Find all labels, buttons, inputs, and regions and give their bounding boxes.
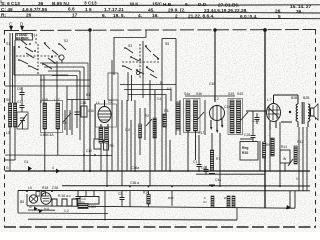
svg-text:S6: S6 — [6, 98, 10, 102]
svg-text:L.2: L.2 — [214, 97, 219, 101]
svg-text:S4b: S4b — [196, 92, 202, 96]
svg-text:S: 6 C13: S: 6 C13 — [1, 1, 20, 7]
svg-text:1.7.17.21: 1.7.17.21 — [104, 7, 124, 13]
svg-text:19. 5.: 19. 5. — [113, 13, 125, 19]
svg-text:C36a: C36a — [131, 166, 139, 170]
svg-text:26: 26 — [26, 12, 32, 18]
svg-text:3 C13: 3 C13 — [84, 1, 97, 7]
svg-text:C17: C17 — [198, 131, 204, 135]
svg-text:L5: L5 — [28, 186, 32, 190]
svg-text:-6.5: -6.5 — [166, 87, 172, 91]
svg-text:C4B: C4B — [80, 101, 86, 105]
svg-text:C10: C10 — [86, 149, 92, 153]
svg-text:R9: R9 — [266, 143, 270, 147]
svg-text:9.: 9. — [185, 2, 189, 8]
svg-text:R11: R11 — [281, 145, 287, 149]
svg-text:2: 2 — [175, 13, 178, 19]
svg-text:C4s: C4s — [215, 178, 221, 182]
svg-text:B1: B1 — [86, 93, 90, 97]
svg-text:S5: S5 — [165, 42, 169, 46]
svg-text:5: 5 — [278, 14, 281, 20]
svg-text:S1: S1 — [6, 42, 10, 46]
svg-text:36.: 36. — [296, 9, 303, 15]
svg-text:1000: 1000 — [89, 205, 96, 209]
svg-text:Reg: Reg — [242, 146, 248, 150]
svg-text:R.16 a-c: R.16 a-c — [58, 194, 71, 198]
svg-text:H.B.: H.B. — [163, 2, 173, 8]
svg-text:4.6: 4.6 — [62, 121, 67, 125]
svg-text:C14: C14 — [31, 34, 37, 38]
svg-text:C.6: C.6 — [125, 128, 130, 132]
svg-text:6.: 6. — [102, 13, 106, 19]
svg-text:21.22. 8.6.4.: 21.22. 8.6.4. — [188, 14, 214, 20]
svg-text:6.: 6. — [160, 81, 163, 85]
svg-text:1 6: 1 6 — [85, 7, 92, 13]
svg-text:C6: C6 — [201, 166, 205, 170]
svg-text:L4C: L4C — [54, 98, 61, 102]
svg-text:4.6.6.7/7.55: 4.6.6.7/7.55 — [22, 7, 47, 13]
svg-text:26.: 26. — [275, 9, 282, 15]
svg-text:15/C: 15/C — [152, 2, 163, 8]
svg-text:29.9. (2.: 29.9. (2. — [168, 8, 185, 14]
svg-text:S4S: S4S — [228, 92, 235, 96]
svg-text:23,44,6,19,26.22,28.: 23,44,6,19,26.22,28. — [204, 8, 248, 14]
svg-text:B2B: B2B — [291, 96, 298, 100]
svg-text:G1: G1 — [24, 160, 29, 164]
svg-text:C26: C26 — [244, 133, 250, 137]
svg-text:R1k: R1k — [143, 191, 149, 195]
svg-text:C35: C35 — [52, 186, 58, 190]
svg-text:R18: R18 — [42, 186, 48, 190]
svg-text:45.: 45. — [148, 7, 155, 13]
svg-text:B2B: B2B — [303, 96, 310, 100]
svg-text:L4B: L4B — [42, 98, 49, 102]
svg-text:C4A: C4A — [47, 133, 54, 137]
svg-text:S4S: S4S — [237, 92, 244, 96]
svg-text:C36 a: C36 a — [130, 181, 139, 185]
svg-text:27.C1.B6.: 27.C1.B6. — [218, 2, 239, 8]
svg-text:5.: 5. — [0, 0, 3, 4]
svg-text:L 7: L 7 — [267, 98, 272, 102]
svg-text:R7: R7 — [216, 157, 220, 161]
svg-text:L3: L3 — [6, 131, 10, 135]
svg-text:R16: R16 — [168, 196, 174, 200]
svg-text:17: 17 — [72, 13, 78, 19]
svg-text:C9: C9 — [17, 87, 21, 91]
svg-text:M.K.: M.K. — [130, 1, 140, 7]
svg-text:S2: S2 — [64, 39, 68, 43]
svg-text:R12: R12 — [297, 140, 303, 144]
svg-text:B5: B5 — [20, 200, 24, 204]
svg-text:C16: C16 — [88, 109, 94, 113]
svg-text:D.D.: D.D. — [198, 2, 208, 8]
svg-text:C: 46: C: 46 — [1, 7, 13, 13]
svg-text:L1: L1 — [96, 101, 100, 105]
svg-text:6.6: 6.6 — [68, 7, 75, 13]
svg-text:C4: C4 — [157, 97, 161, 101]
svg-text:R2: R2 — [145, 114, 149, 118]
svg-text:C15: C15 — [17, 100, 23, 104]
svg-text:S4a: S4a — [184, 92, 190, 96]
svg-text:C1: C1 — [193, 160, 197, 164]
svg-text:R10: R10 — [242, 151, 248, 155]
svg-text:C48: C48 — [209, 82, 215, 86]
svg-text:B.65 N.I: B.65 N.I — [52, 1, 69, 7]
svg-text:R:: R: — [1, 12, 6, 18]
svg-text:4: 4 — [52, 166, 54, 170]
svg-text:C3: C3 — [118, 192, 122, 196]
svg-text:4.: 4. — [138, 13, 142, 19]
svg-text:1.2: 1.2 — [64, 209, 69, 213]
svg-text:16.: 16. — [152, 13, 159, 19]
svg-text:R3: R3 — [164, 109, 168, 113]
svg-text:C1: C1 — [203, 200, 207, 204]
svg-text:C11: C11 — [224, 105, 230, 109]
svg-text:36: 36 — [38, 1, 44, 7]
svg-text:6.0.:0.4.: 6.0.:0.4. — [240, 14, 257, 20]
svg-text:S3: S3 — [128, 44, 132, 48]
svg-text:G: G — [6, 166, 9, 170]
